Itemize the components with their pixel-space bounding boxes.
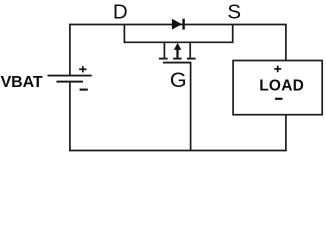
svg-text:VBAT: VBAT xyxy=(1,74,43,91)
transistor Q1 body arrow head xyxy=(174,43,181,50)
transistor Q1 drain contact bar xyxy=(159,58,168,60)
transistor Q1 body contact bar xyxy=(173,58,182,60)
body diode cathode bar xyxy=(182,19,184,30)
wire: left rail upper (top rail down to battery +) xyxy=(69,24,71,75)
load - polarity mark xyxy=(275,98,282,100)
wire: load bottom lead (load box down to bottom rail) xyxy=(285,115,287,151)
svg-text:G: G xyxy=(170,68,187,92)
svg-text:S: S xyxy=(227,1,241,24)
battery + polarity mark xyxy=(79,66,86,72)
wire: drain drop from top rail to channel rail xyxy=(123,25,125,44)
body diode anode triangle xyxy=(172,19,182,30)
wire: bottom rail xyxy=(69,150,287,152)
wire: channel rail (drain to source under body diode) xyxy=(124,41,234,43)
wire: source riser up to top rail xyxy=(232,25,234,44)
wire: top rail (battery + to load, node D to S) xyxy=(69,24,287,26)
battery - polarity mark xyxy=(80,89,88,91)
transistor Q1 gate plate xyxy=(163,62,192,64)
svg-text:LOAD: LOAD xyxy=(259,78,304,95)
transistor Q1 source contact bar xyxy=(187,58,196,60)
wire: left rail lower (battery - down to bottom rail) xyxy=(69,82,71,152)
load + polarity mark xyxy=(274,66,281,73)
transistor Q1 body arrow stem xyxy=(176,50,178,59)
transistor Q1 source stub xyxy=(189,42,191,58)
load box outline xyxy=(233,61,322,115)
wire: gate lead down to bottom rail xyxy=(190,63,192,151)
wire: load top lead (top rail down to load box) xyxy=(285,25,287,61)
transistor Q1 drain stub xyxy=(163,42,165,58)
battery VBAT negative plate xyxy=(57,81,84,83)
svg-text:D: D xyxy=(113,0,128,23)
battery VBAT positive plate xyxy=(48,75,92,77)
